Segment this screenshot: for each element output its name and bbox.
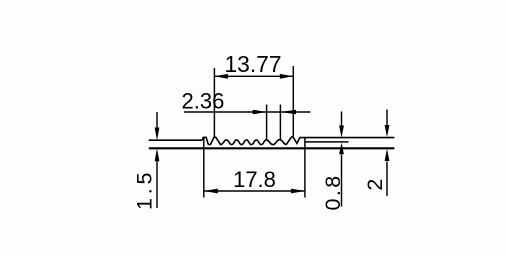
- dim 2 dimension line lower with up arrow: [386, 162, 388, 197]
- dim 0.8 dimension line upper with down arrow: [341, 112, 343, 126]
- dim 17.8 extension line left: [203, 137, 205, 197]
- profile knurled top and right tab top edge: [202, 137, 394, 145]
- dim 13.77 arrow left: [214, 74, 228, 79]
- svg-text:0.8: 0.8: [321, 173, 345, 210]
- dim 13.77 arrow right: [280, 74, 294, 79]
- dim 1.5 dimension line lower with up arrow: [156, 161, 158, 208]
- dim 2.36 extension line right: [279, 105, 281, 140]
- profile bottom edge: [149, 147, 395, 149]
- dim 2.36 dimension line: [184, 111, 310, 113]
- svg-text:17.8: 17.8: [233, 167, 276, 192]
- svg-text:2: 2: [363, 179, 387, 191]
- dim 2.36 extension line left: [266, 105, 268, 140]
- dim 13.77 dimension line: [214, 75, 293, 77]
- knurl root reference line (0.8 extension): [305, 141, 349, 143]
- dim 17.8 arrow left: [204, 189, 218, 194]
- dim 13.77 extension line left: [213, 68, 215, 137]
- svg-text:1.5: 1.5: [133, 169, 157, 210]
- svg-text:2.36: 2.36: [182, 88, 225, 113]
- svg-text:13.77: 13.77: [224, 51, 281, 77]
- dim 13.77 extension line right: [292, 66, 294, 137]
- dim 17.8 extension line right: [304, 138, 306, 198]
- dim 17.8 arrow right: [291, 189, 305, 194]
- dim 1.5 dimension line upper with down arrow: [156, 112, 158, 129]
- profile left top edge (1.5 thick tab): [149, 139, 203, 141]
- dim 2 dimension line upper with down arrow: [386, 110, 388, 126]
- dim 2.36 arrow pointing left: [280, 110, 296, 115]
- dim 17.8 dimension line: [204, 190, 305, 192]
- dim 0.8 dimension line lower with up arrow: [341, 155, 343, 207]
- dim 2.36 arrow pointing right: [253, 110, 267, 115]
